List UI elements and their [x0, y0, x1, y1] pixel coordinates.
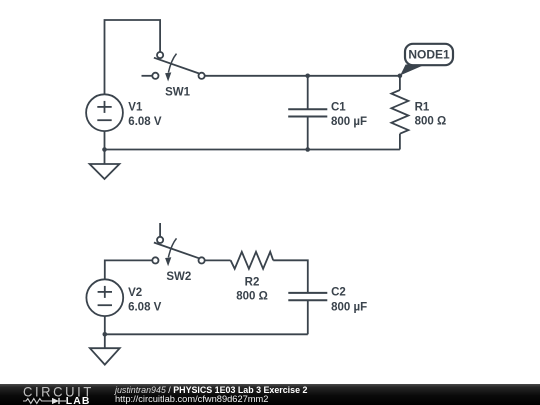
voltage source V1: [86, 94, 123, 131]
junction dot SW1 rail / C1 top: [305, 74, 310, 79]
wire SW2 common to R2: [205, 259, 231, 261]
junction dot V1 bottom / ground: [102, 147, 107, 152]
wire C2 bottom lead: [307, 300, 309, 334]
svg-text:SW1: SW1: [165, 86, 191, 98]
wire R1 bottom lead to rail: [399, 134, 401, 150]
switch SW1: [142, 52, 205, 82]
ground (bottom circuit): [90, 334, 120, 364]
capacitor C1: [288, 109, 327, 116]
voltage source V2: [86, 279, 123, 316]
svg-text:800 Ω: 800 Ω: [415, 115, 447, 127]
ground (top circuit): [90, 150, 120, 180]
svg-text:C1: C1: [331, 102, 346, 114]
wire V2 top to SW2 left terminal: [105, 260, 152, 279]
wire C1 top lead: [307, 76, 309, 109]
wire V1 bottom to ground junction: [104, 131, 106, 149]
svg-text:LAB: LAB: [66, 396, 91, 405]
svg-text:R2: R2: [245, 277, 260, 289]
wire R2 to C2 top: [273, 260, 308, 293]
junction dot C1 bottom / rail: [305, 147, 310, 152]
svg-text:V1: V1: [128, 102, 143, 114]
CircuitLab logo: [0, 384, 110, 405]
wire bottom rail top circuit: [105, 149, 400, 151]
wire C1 bottom lead: [307, 117, 309, 150]
node NODE1 flag: [400, 44, 453, 76]
svg-text:R1: R1: [415, 102, 430, 114]
junction dot node NODE1 / R1 top: [398, 74, 403, 79]
svg-text:800 µF: 800 µF: [331, 302, 367, 314]
svg-text:NODE1: NODE1: [408, 48, 450, 62]
capacitor C2: [288, 293, 327, 300]
svg-text:800 Ω: 800 Ω: [236, 291, 268, 303]
svg-text:800 µF: 800 µF: [331, 116, 367, 128]
svg-text:6.08 V: 6.08 V: [128, 301, 162, 313]
resistor R1: [391, 76, 408, 134]
svg-text:SW2: SW2: [166, 271, 191, 283]
resistor R2: [231, 252, 274, 269]
footer bar: [0, 384, 540, 405]
svg-text:6.08 V: 6.08 V: [128, 116, 162, 128]
svg-text:C2: C2: [331, 286, 346, 298]
wire bottom rail bottom circuit: [105, 333, 308, 335]
wire SW1 common to node/top rail: [205, 75, 400, 77]
wire from V1 top to SW1 top terminal: [105, 20, 161, 94]
footer text: [114, 383, 116, 385]
junction dot V2 bottom / ground: [103, 332, 108, 337]
svg-text:V2: V2: [128, 287, 142, 299]
switch SW2: [152, 223, 204, 266]
wire V2 bottom to ground junction: [104, 316, 106, 334]
